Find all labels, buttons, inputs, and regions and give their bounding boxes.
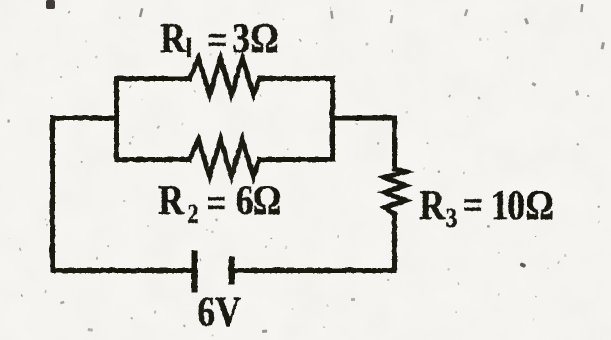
wire: box bottom-right segment <box>259 157 332 162</box>
wire: box top-right segment <box>259 76 332 81</box>
resistor R2 <box>189 139 259 176</box>
wire: right stub from box to node B <box>332 115 394 120</box>
wire: right vertical lower <box>392 214 397 270</box>
battery B1 short plate <box>228 259 234 281</box>
wire: box right edge <box>330 78 335 159</box>
wire: right vertical upper <box>392 118 397 169</box>
battery B1 long plate <box>191 253 197 289</box>
resistor R1 <box>189 58 259 94</box>
paper grain <box>0 0 1 1</box>
wire: box top-left segment <box>116 76 189 81</box>
label R2 = 6 ohm <box>158 177 281 229</box>
wire: box bottom-left segment <box>116 157 189 162</box>
wire: left stub from node A to box <box>52 115 116 120</box>
wire: bottom-left to battery <box>52 268 194 273</box>
label 6V battery voltage <box>197 289 241 335</box>
resistor R3 <box>384 168 405 214</box>
wire: box left edge <box>114 78 119 159</box>
label R3 = 10 ohm <box>419 182 554 233</box>
label R1 = 3 ohm <box>160 15 279 63</box>
wire: left vertical <box>50 118 55 271</box>
wire: battery to bottom-right corner <box>231 268 394 273</box>
